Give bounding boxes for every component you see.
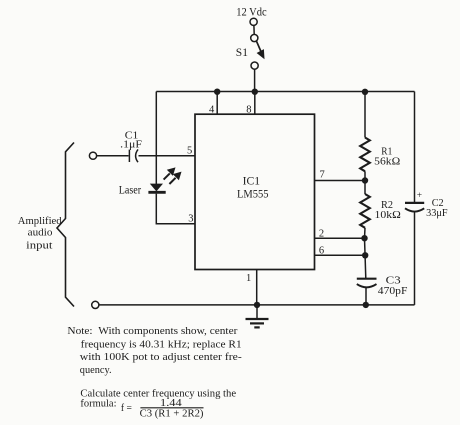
node junction C3 bottom [363, 302, 369, 308]
audio input bottom terminal [92, 301, 99, 308]
svg-text:input: input [26, 239, 52, 251]
svg-text:470pF: 470pF [378, 285, 408, 297]
wire laser branch from bus [155, 92, 157, 185]
diode D1 laser [150, 184, 163, 192]
svg-text:Amplified: Amplified [18, 215, 62, 227]
svg-text:+: + [417, 191, 422, 201]
svg-text:quency.: quency. [80, 364, 112, 376]
svg-text:frequency is 40.31 kHz; replac: frequency is 40.31 kHz; replace R1 [81, 338, 242, 350]
svg-text:LM555: LM555 [237, 189, 269, 201]
note text [67, 325, 242, 419]
wire pin 6 [315, 254, 366, 256]
node junction pin1 ground [254, 302, 260, 308]
12Vdc terminal circle [250, 18, 257, 25]
svg-text:10kΩ: 10kΩ [375, 209, 401, 221]
resistor R1 [364, 92, 366, 138]
wire pin 1 [256, 270, 258, 305]
IC U1 IC1 LM555 box [195, 114, 315, 269]
svg-text:C3 (R1 + 2R2): C3 (R1 + 2R2) [140, 408, 204, 420]
svg-text:3: 3 [188, 214, 193, 225]
wire [253, 25, 255, 34]
wire top supply bus [156, 91, 414, 93]
svg-text:Note: With components show, c: Note: With components show, center [67, 325, 237, 337]
ground [256, 305, 258, 319]
audio input top terminal [89, 152, 96, 159]
svg-text:f =: f = [121, 402, 132, 414]
wire pin 7 [315, 180, 366, 182]
svg-text:audio: audio [28, 226, 53, 238]
svg-text:56kΩ: 56kΩ [374, 156, 400, 168]
laser emission arrow 1 [164, 173, 170, 179]
svg-text:33μF: 33μF [426, 207, 448, 219]
node junction R1 top [362, 89, 368, 95]
wire laser to pin 3 [156, 194, 195, 224]
wire pin 4 [216, 92, 218, 115]
node junction pin6 [362, 252, 368, 258]
svg-text:6: 6 [319, 246, 324, 257]
node junction pin7 R1 R2 [362, 177, 368, 183]
brace amplified audio input [57, 143, 74, 307]
svg-text:2: 2 [319, 229, 324, 240]
wire bottom bus [99, 304, 415, 306]
svg-text:.1μF: .1μF [120, 138, 142, 150]
node junction pin8 [252, 89, 258, 95]
laser emission arrow 2 [169, 178, 175, 184]
capacitor C1 [128, 150, 130, 162]
wire C1 to pin 5 [139, 155, 196, 157]
svg-text:IC1: IC1 [243, 176, 261, 188]
svg-text:12 Vdc: 12 Vdc [236, 7, 267, 19]
node junction pin4 [214, 89, 220, 95]
wire terminal to C1 [97, 155, 129, 157]
resistor R2 [364, 181, 366, 195]
wire pin 2 [315, 237, 365, 239]
capacitor C2 [405, 202, 424, 204]
switch S1 lower terminal [251, 62, 258, 69]
capacitor C3 [357, 278, 377, 280]
switch S1 arm [256, 41, 261, 52]
svg-text:1: 1 [246, 273, 251, 284]
node junction pin2 R2 [361, 235, 367, 241]
svg-text:5: 5 [187, 146, 192, 157]
svg-text:S1: S1 [236, 47, 248, 59]
wire pin 8 [254, 92, 256, 115]
svg-text:7: 7 [320, 170, 325, 181]
svg-text:formula:: formula: [80, 398, 116, 410]
svg-text:Laser: Laser [119, 184, 142, 196]
formula fraction bar [140, 407, 203, 409]
wire R2 bottom to C3 [365, 238, 366, 278]
capacitor C2 branch wire [414, 92, 416, 203]
switch S1 upper terminal [251, 34, 258, 41]
svg-text:with 100K pot to adjust center: with 100K pot to adjust center fre- [80, 351, 242, 363]
wire switch to bus [254, 69, 256, 91]
